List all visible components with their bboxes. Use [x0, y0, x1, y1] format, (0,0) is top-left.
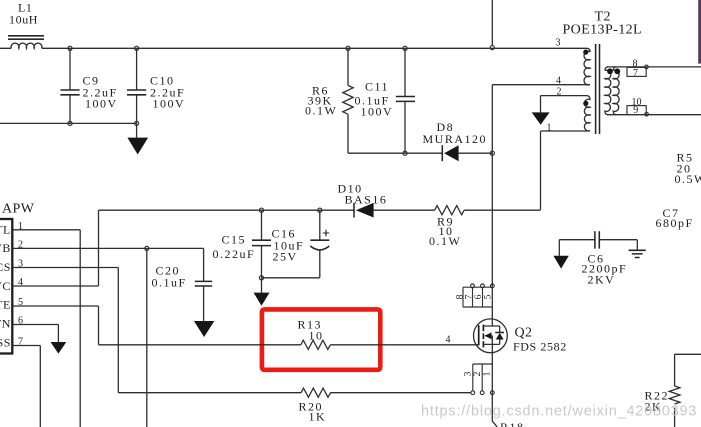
- capacitor C15: [213, 210, 272, 278]
- svg-text:4: 4: [446, 335, 451, 346]
- node secondary bottom tap: [645, 112, 649, 116]
- capacitor C11: [355, 48, 416, 153]
- resistor R9: [429, 206, 464, 248]
- svg-text:7: 7: [465, 294, 475, 299]
- svg-text:SS: SS: [0, 336, 11, 350]
- svg-text:7: 7: [633, 68, 638, 79]
- svg-text:1K: 1K: [309, 410, 327, 424]
- svg-text:BAS16: BAS16: [345, 193, 388, 207]
- node junction drain riser top: [490, 46, 494, 50]
- node junction C10 top: [135, 46, 139, 50]
- diode D10 BAS16: [338, 182, 388, 218]
- node junction C16 top: [318, 208, 322, 212]
- Q2 drain pin box (pins 8,7,6,5): [456, 284, 495, 307]
- svg-text:TE: TE: [0, 298, 11, 312]
- inductor L1: [8, 1, 44, 49]
- pin 9 box: [627, 105, 646, 116]
- svg-text:0.1W: 0.1W: [429, 234, 461, 248]
- T2 primary winding pins 2-1: [541, 96, 591, 131]
- svg-text:0.1W: 0.1W: [305, 104, 337, 118]
- wire pin3 route: [13, 268, 118, 393]
- capacitor C20: [152, 248, 213, 321]
- node junction R6 top: [346, 46, 350, 50]
- svg-text:4: 4: [556, 76, 561, 87]
- ground at pin6: [51, 342, 67, 354]
- svg-text:2KV: 2KV: [588, 273, 616, 287]
- node junction C11 top: [403, 46, 407, 50]
- node junction pin2: [145, 246, 149, 250]
- resistor R22: [645, 354, 701, 427]
- svg-text:C11: C11: [365, 80, 389, 94]
- ground at T2 pin2: [532, 96, 550, 125]
- node secondary top tap: [645, 65, 649, 69]
- wire pin7 route: [13, 346, 40, 427]
- svg-text:POE13P-12L: POE13P-12L: [563, 23, 642, 38]
- svg-text:3: 3: [463, 371, 473, 376]
- svg-text:https://blog.csdn.net/weixin_4: https://blog.csdn.net/weixin_42080393: [421, 404, 697, 420]
- T2 core: [596, 44, 600, 134]
- wire pin6 stub: [13, 325, 58, 343]
- wire pin1 route: [13, 230, 80, 427]
- wire top bus: [0, 47, 587, 49]
- T2 secondary windings: [605, 67, 620, 115]
- wire D10/R9 bus: [99, 209, 541, 211]
- svg-text:10: 10: [309, 329, 324, 343]
- pin 7 box: [627, 67, 646, 78]
- svg-text:APW: APW: [2, 202, 35, 217]
- diode D8 MURA120: [423, 120, 488, 161]
- wire pin4 route: [13, 285, 99, 287]
- ground under C10: [127, 123, 148, 154]
- capacitor C6: [559, 231, 637, 286]
- svg-text:0.22uF: 0.22uF: [213, 247, 256, 261]
- wire drain column (T2 pin4 down to Q2 drain): [491, 85, 493, 326]
- svg-text:Q2: Q2: [515, 326, 533, 341]
- node junction C15 top: [259, 208, 263, 212]
- svg-text:1: 1: [483, 371, 493, 376]
- wire bottom-left bus: [0, 122, 137, 124]
- node junction C9 top: [68, 46, 72, 50]
- wire secondary top tap to edge: [607, 66, 701, 68]
- T2 primary winding pins 3-4: [583, 48, 590, 85]
- resistor R20: [118, 388, 471, 423]
- wire pin2 route: [13, 248, 204, 427]
- Q2 source pin struct (pins 3,2,1): [463, 364, 494, 395]
- earth ground at C6 right: [629, 250, 646, 257]
- wire pin5 route: [13, 306, 99, 345]
- svg-text:2: 2: [557, 87, 562, 98]
- svg-text:5: 5: [484, 294, 494, 299]
- ground under C15: [254, 278, 270, 306]
- highlight red box around R13: [262, 309, 380, 369]
- capacitor C10: [127, 48, 185, 123]
- op IC U APW (cut at left edge): [0, 202, 35, 354]
- svg-text:680pF: 680pF: [656, 216, 694, 230]
- svg-text:9: 9: [633, 105, 638, 116]
- resistor R13: [99, 318, 479, 350]
- node junction C9 bottom: [68, 121, 72, 125]
- wire Q2 source down to R18: [492, 344, 497, 427]
- capacitor C7 labels (component off-canvas): [656, 206, 694, 230]
- svg-text:TN: TN: [0, 317, 11, 331]
- wire snubber bus R6-C11-D8: [348, 152, 492, 154]
- svg-text:VC: VC: [0, 279, 11, 293]
- svg-text:CS: CS: [0, 260, 11, 274]
- svg-text:10uH: 10uH: [9, 13, 38, 27]
- resistor R6: [305, 48, 353, 153]
- wire T2 pin1 stub and riser: [541, 131, 591, 210]
- wire secondary bottom tap to edge: [607, 114, 701, 116]
- ground under C20: [194, 321, 214, 337]
- svg-text:MURA120: MURA120: [423, 132, 488, 146]
- svg-text:R18: R18: [500, 420, 525, 427]
- wire vertical to top edge at drain column: [491, 0, 493, 46]
- svg-text:100V: 100V: [85, 97, 118, 111]
- svg-text:FDS 2582: FDS 2582: [513, 340, 567, 354]
- svg-text:100V: 100V: [361, 105, 394, 119]
- svg-text:25V: 25V: [273, 250, 298, 264]
- svg-text:1: 1: [547, 123, 552, 134]
- wire C15-C16 bottom bus: [262, 277, 320, 279]
- ground arrow at C6 left: [553, 256, 568, 269]
- node junction C15 bottom: [259, 276, 263, 280]
- wire T2 pin4 stub: [492, 84, 590, 86]
- svg-text:TL: TL: [0, 223, 11, 237]
- svg-text:3: 3: [556, 38, 561, 49]
- svg-text:0.5W: 0.5W: [675, 172, 701, 186]
- capacitor C9: [60, 48, 117, 123]
- resistor R5 labels (component off-canvas): [675, 151, 701, 187]
- svg-text:VB: VB: [0, 241, 11, 255]
- svg-text:2: 2: [473, 371, 483, 376]
- node junction D8 drain column: [490, 151, 494, 155]
- capacitor C16 electrolytic: [272, 210, 330, 278]
- svg-text:0.1uF: 0.1uF: [152, 276, 187, 290]
- svg-text:100V: 100V: [153, 97, 186, 111]
- svg-text:C15: C15: [222, 233, 247, 247]
- wire VC riser to D10 bus: [98, 210, 100, 286]
- node junction C10 bottom: [135, 121, 139, 125]
- node junction C11 bottom: [403, 151, 407, 155]
- purple screen artifact top right: [698, 0, 701, 64]
- transistor Q2 FDS2582: [474, 319, 567, 354]
